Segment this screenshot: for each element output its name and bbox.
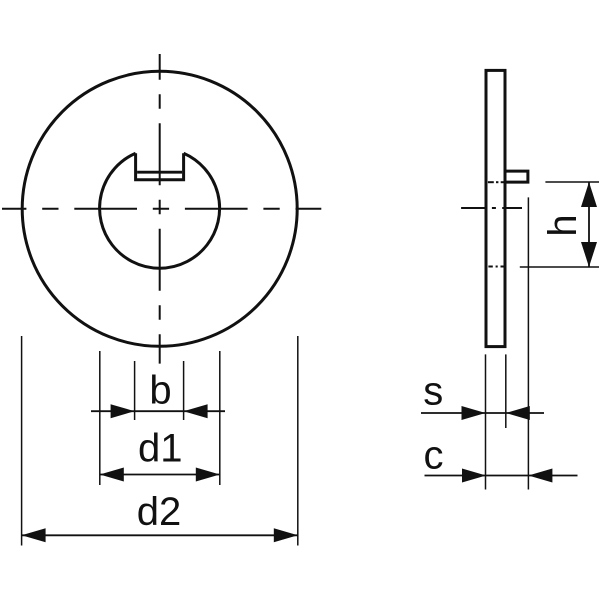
svg-text:d1: d1 (138, 427, 183, 471)
dimension line h (588, 182, 590, 267)
dimension line b (91, 410, 225, 412)
dimension line s (421, 412, 544, 414)
extension line c right (527, 197, 529, 489)
svg-text:d2: d2 (137, 490, 182, 534)
vertical centerline (front view) (159, 54, 161, 364)
chain line at tab level (488, 181, 504, 183)
extension line s right (505, 354, 507, 428)
lower chain line (side view) (488, 266, 504, 268)
nose bend line (137, 171, 182, 174)
arrow s left (outside, points right) (462, 406, 486, 420)
arrow b right (outside, points left) (184, 404, 208, 418)
arrow d1 right (points right) (196, 468, 220, 482)
arrow d2 right (points right) (274, 528, 298, 542)
side view tab (nose bent out) (505, 171, 528, 182)
extension line h bottom (520, 266, 599, 268)
side view washer body (486, 70, 505, 346)
dimension line d1 (100, 474, 220, 476)
dimension line d2 (22, 534, 298, 536)
svg-text:h: h (541, 214, 585, 236)
arrow b left (outside, points right) (111, 404, 135, 418)
arrow c left (outside, points right) (462, 469, 486, 483)
extension line d1 right (219, 351, 221, 485)
extension line d1 left (99, 351, 101, 485)
bore circle d1 (major arc, top notch removed) (100, 153, 220, 268)
svg-text:b: b (149, 369, 171, 413)
dimension line c (425, 475, 578, 477)
arrow s right (outside, points left) (506, 406, 530, 420)
extension line d2 right (297, 336, 299, 546)
svg-text:s: s (423, 369, 443, 413)
extension line d2 left (21, 336, 23, 546)
arrow d1 left (points left) (100, 468, 124, 482)
main axis chain line (side view) (461, 207, 522, 209)
arrow d2 left (points left) (22, 528, 46, 542)
label h (rotated) (541, 214, 585, 236)
extension line b right (183, 361, 185, 420)
horizontal centerline (front view) (2, 208, 321, 210)
outer circle d2 (front view washer outline) (22, 71, 297, 346)
arrow c right (outside, points left) (528, 469, 552, 483)
extension line b left (134, 361, 136, 420)
extension line h top (545, 181, 599, 183)
svg-text:c: c (424, 434, 444, 478)
arrow h bottom (points down) (581, 242, 597, 267)
arrow h top (points up) (581, 182, 597, 207)
extension line s/c left (485, 354, 487, 489)
nose outline (internal tab) (136, 153, 184, 180)
